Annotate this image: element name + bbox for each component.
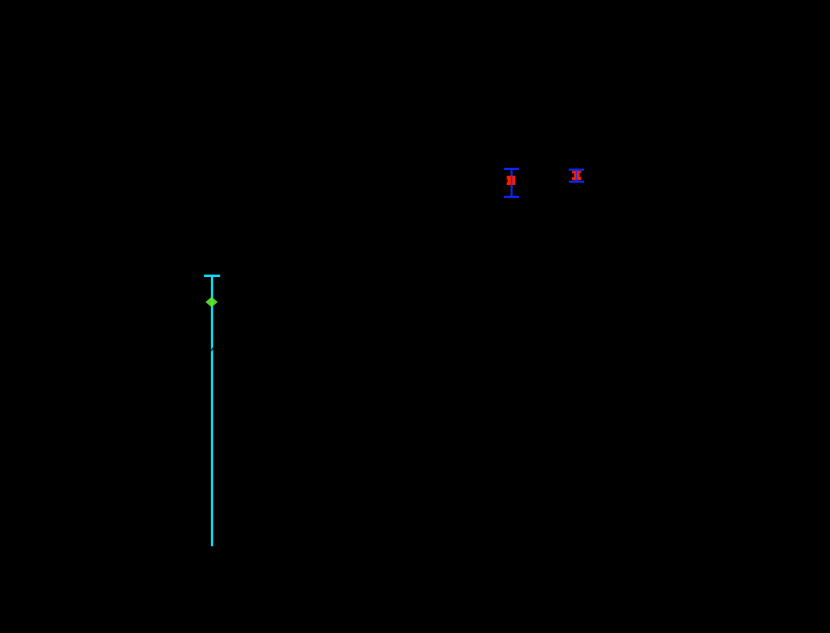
cyan break lower-right sliver [211, 350, 213, 352]
green diamond marker [206, 297, 218, 307]
blue errorbar 1 top cap [504, 168, 519, 170]
blue errorbar 1 vertical line [511, 169, 513, 197]
red marker 1 left notch [507, 180, 508, 182]
blue errorbar 2 vertical line [576, 170, 578, 182]
blue errorbar 2 top cap [569, 169, 584, 171]
cyan errorbar top cap [204, 275, 220, 277]
blue line overlay across red marker 2 [576, 171, 578, 180]
cyan break upper-left sliver [211, 347, 213, 350]
blue errorbar 1 bottom cap [504, 196, 519, 198]
cyan errorbar lower line segment [211, 351, 213, 546]
cyan errorbar upper line segment [211, 276, 213, 347]
blue errorbar 2 bottom cap [569, 181, 584, 183]
red square marker group 1 [507, 176, 516, 185]
cyan line break dim fill [211, 347, 213, 351]
red marker 2 right notch [580, 173, 582, 177]
red marker 2 left notch [572, 173, 574, 177]
blue line overlay across red marker 1 [511, 176, 513, 185]
red square marker group 2 [572, 171, 581, 180]
